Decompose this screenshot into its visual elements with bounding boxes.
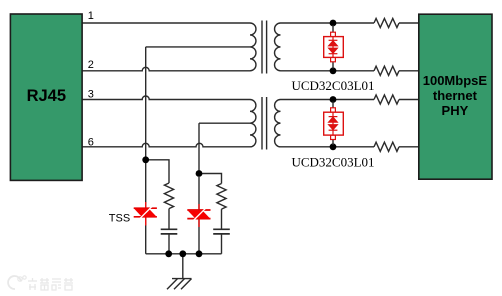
watermark logo	[8, 276, 26, 289]
wire resistor R3 to PHY	[399, 99, 419, 101]
wire T1 center tap vertical	[145, 47, 147, 160]
wire resistor R2 to PHY	[399, 70, 419, 72]
wire pin1	[82, 22, 250, 24]
wire pin3 with hop	[82, 96, 250, 99]
junction dot T1 sec bottom	[330, 67, 337, 74]
transformer T2 primary winding	[250, 100, 256, 147]
junction dot T1 sec top	[330, 20, 337, 27]
TSS1 red stub	[145, 202, 147, 226]
junction dot rail Ca	[165, 250, 172, 257]
transformer T1 core	[262, 21, 267, 74]
wire T1 secondary top to resistor	[281, 22, 375, 24]
wire ground stem	[182, 254, 184, 279]
svg-text:thernet: thernet	[433, 88, 478, 103]
svg-text:UCD32C03L01: UCD32C03L01	[291, 78, 374, 93]
resistor R2	[374, 66, 399, 75]
wire T1 secondary bottom to resistor	[281, 70, 375, 72]
transformer T2 center tap lead	[199, 122, 250, 124]
wire Cb to rail	[221, 234, 223, 254]
junction dot T2 sec bottom	[330, 143, 337, 150]
wire T2 secondary bottom to resistor	[281, 146, 375, 148]
junction dot rail ground	[179, 250, 186, 257]
wire Ca to rail	[168, 234, 170, 254]
resistor R3	[374, 95, 399, 104]
protection device U2 terminal squares	[331, 108, 336, 112]
svg-text:1: 1	[88, 10, 94, 22]
wire bottom rail	[146, 253, 222, 255]
wire node A to resistor Ra	[146, 160, 169, 183]
capacitor Cb	[213, 229, 230, 234]
wire T2 secondary top to resistor	[281, 99, 375, 101]
transformer T1 secondary winding	[275, 23, 281, 71]
protection device U2 box	[324, 112, 344, 135]
wire pin2 with hop	[82, 67, 250, 71]
wire Rb to capacitor Cb	[221, 209, 223, 229]
protection device U1 internal diodes	[329, 37, 338, 57]
resistor R1	[374, 18, 399, 27]
ground	[167, 279, 192, 290]
resistor Ra	[164, 183, 173, 209]
TSS2 red stub	[198, 204, 200, 227]
PHY box	[419, 14, 492, 179]
transformer T1 center tap lead	[146, 46, 250, 48]
resistor R4	[374, 142, 399, 151]
transformer T1 primary winding	[250, 23, 256, 71]
svg-text:2: 2	[88, 59, 94, 71]
transformer T2 secondary winding	[275, 100, 281, 147]
wire resistor R4 to PHY	[399, 146, 419, 148]
wire T2 center tap vertical	[198, 123, 200, 173]
transformer T2 core	[262, 97, 267, 150]
wire TSS2 vertical	[198, 177, 200, 254]
protection device U1 terminal squares	[331, 32, 336, 36]
wire TSS1 vertical	[145, 160, 147, 254]
svg-text:6: 6	[88, 136, 94, 148]
junction dot rail TSS2	[196, 250, 203, 257]
wire node B to resistor Rb	[199, 174, 222, 184]
wire resistor R1 to PHY	[399, 22, 419, 24]
junction dot T2 sec top	[330, 96, 337, 103]
svg-text:PHY: PHY	[442, 103, 469, 118]
svg-text:RJ45: RJ45	[27, 87, 66, 105]
svg-text:UCD32C03L01: UCD32C03L01	[291, 155, 374, 170]
junction dot node B	[196, 170, 203, 177]
wire pin6 with two hops	[82, 143, 250, 147]
RJ45 connector box	[10, 14, 82, 180]
junction dot node A	[142, 156, 149, 163]
svg-text:TSS: TSS	[109, 212, 130, 224]
svg-text:3: 3	[88, 89, 94, 101]
svg-text:100MbpsE: 100MbpsE	[423, 73, 488, 88]
TSS1	[134, 206, 157, 220]
capacitor Ca	[161, 229, 178, 234]
protection device U1 stubs	[332, 25, 334, 69]
resistor Rb	[217, 184, 226, 210]
watermark text	[28, 278, 73, 290]
TSS2	[187, 208, 210, 222]
wire Ra to capacitor Ca	[168, 209, 170, 230]
protection device U2 internal diodes	[329, 113, 338, 135]
protection device U2 stubs	[332, 102, 334, 146]
protection device U1 box	[324, 37, 344, 58]
